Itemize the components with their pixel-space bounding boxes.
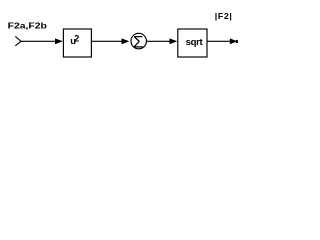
svg-text:|F2|: |F2|: [215, 12, 233, 22]
sum block (circle): [131, 33, 147, 49]
wire: [21, 40, 56, 42]
svg-text:Σ: Σ: [133, 32, 144, 51]
svg-text:sqrt: sqrt: [186, 37, 204, 48]
output arrowhead: [230, 38, 237, 44]
background: [0, 0, 253, 74]
arrowhead into sum: [122, 38, 130, 44]
output arrowhead blunt tip: [236, 40, 238, 43]
arrowhead into sqrt block: [169, 38, 177, 44]
wire: [92, 40, 123, 42]
arrowhead into u2 block: [55, 38, 63, 44]
input port chevron: [15, 36, 21, 45]
wire: [147, 40, 171, 42]
block U1: u^2: [63, 29, 91, 57]
svg-text:2: 2: [74, 33, 79, 43]
output wire: [208, 40, 232, 42]
svg-text:F2a,F2b: F2a,F2b: [8, 22, 48, 31]
block U2: sqrt: [178, 29, 207, 57]
